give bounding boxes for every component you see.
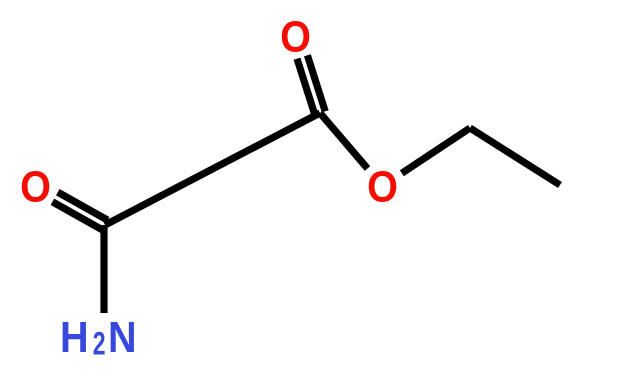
wire: bond C1 to N <box>100 225 107 313</box>
wire: bond C2 to ester O <box>320 113 368 169</box>
wire: bond ester O to CH2 <box>402 128 470 173</box>
svg-text:O: O <box>20 162 51 211</box>
wire: bond CH2 to CH3 <box>470 128 560 185</box>
svg-text:O: O <box>367 162 398 211</box>
svg-text:H: H <box>60 312 89 361</box>
svg-text:O: O <box>280 12 311 61</box>
wire: double bond C1=O left, line 2 <box>52 202 102 230</box>
wire: double bond C1=O left, line 1 <box>58 192 108 220</box>
wire: chain bond C2-C1 <box>105 113 320 225</box>
svg-text:2: 2 <box>93 326 106 362</box>
wire: double bond C2=O top, line 1 <box>307 55 325 111</box>
svg-text:N: N <box>108 312 137 361</box>
wire: double bond C2=O top, line 2 <box>297 59 315 115</box>
